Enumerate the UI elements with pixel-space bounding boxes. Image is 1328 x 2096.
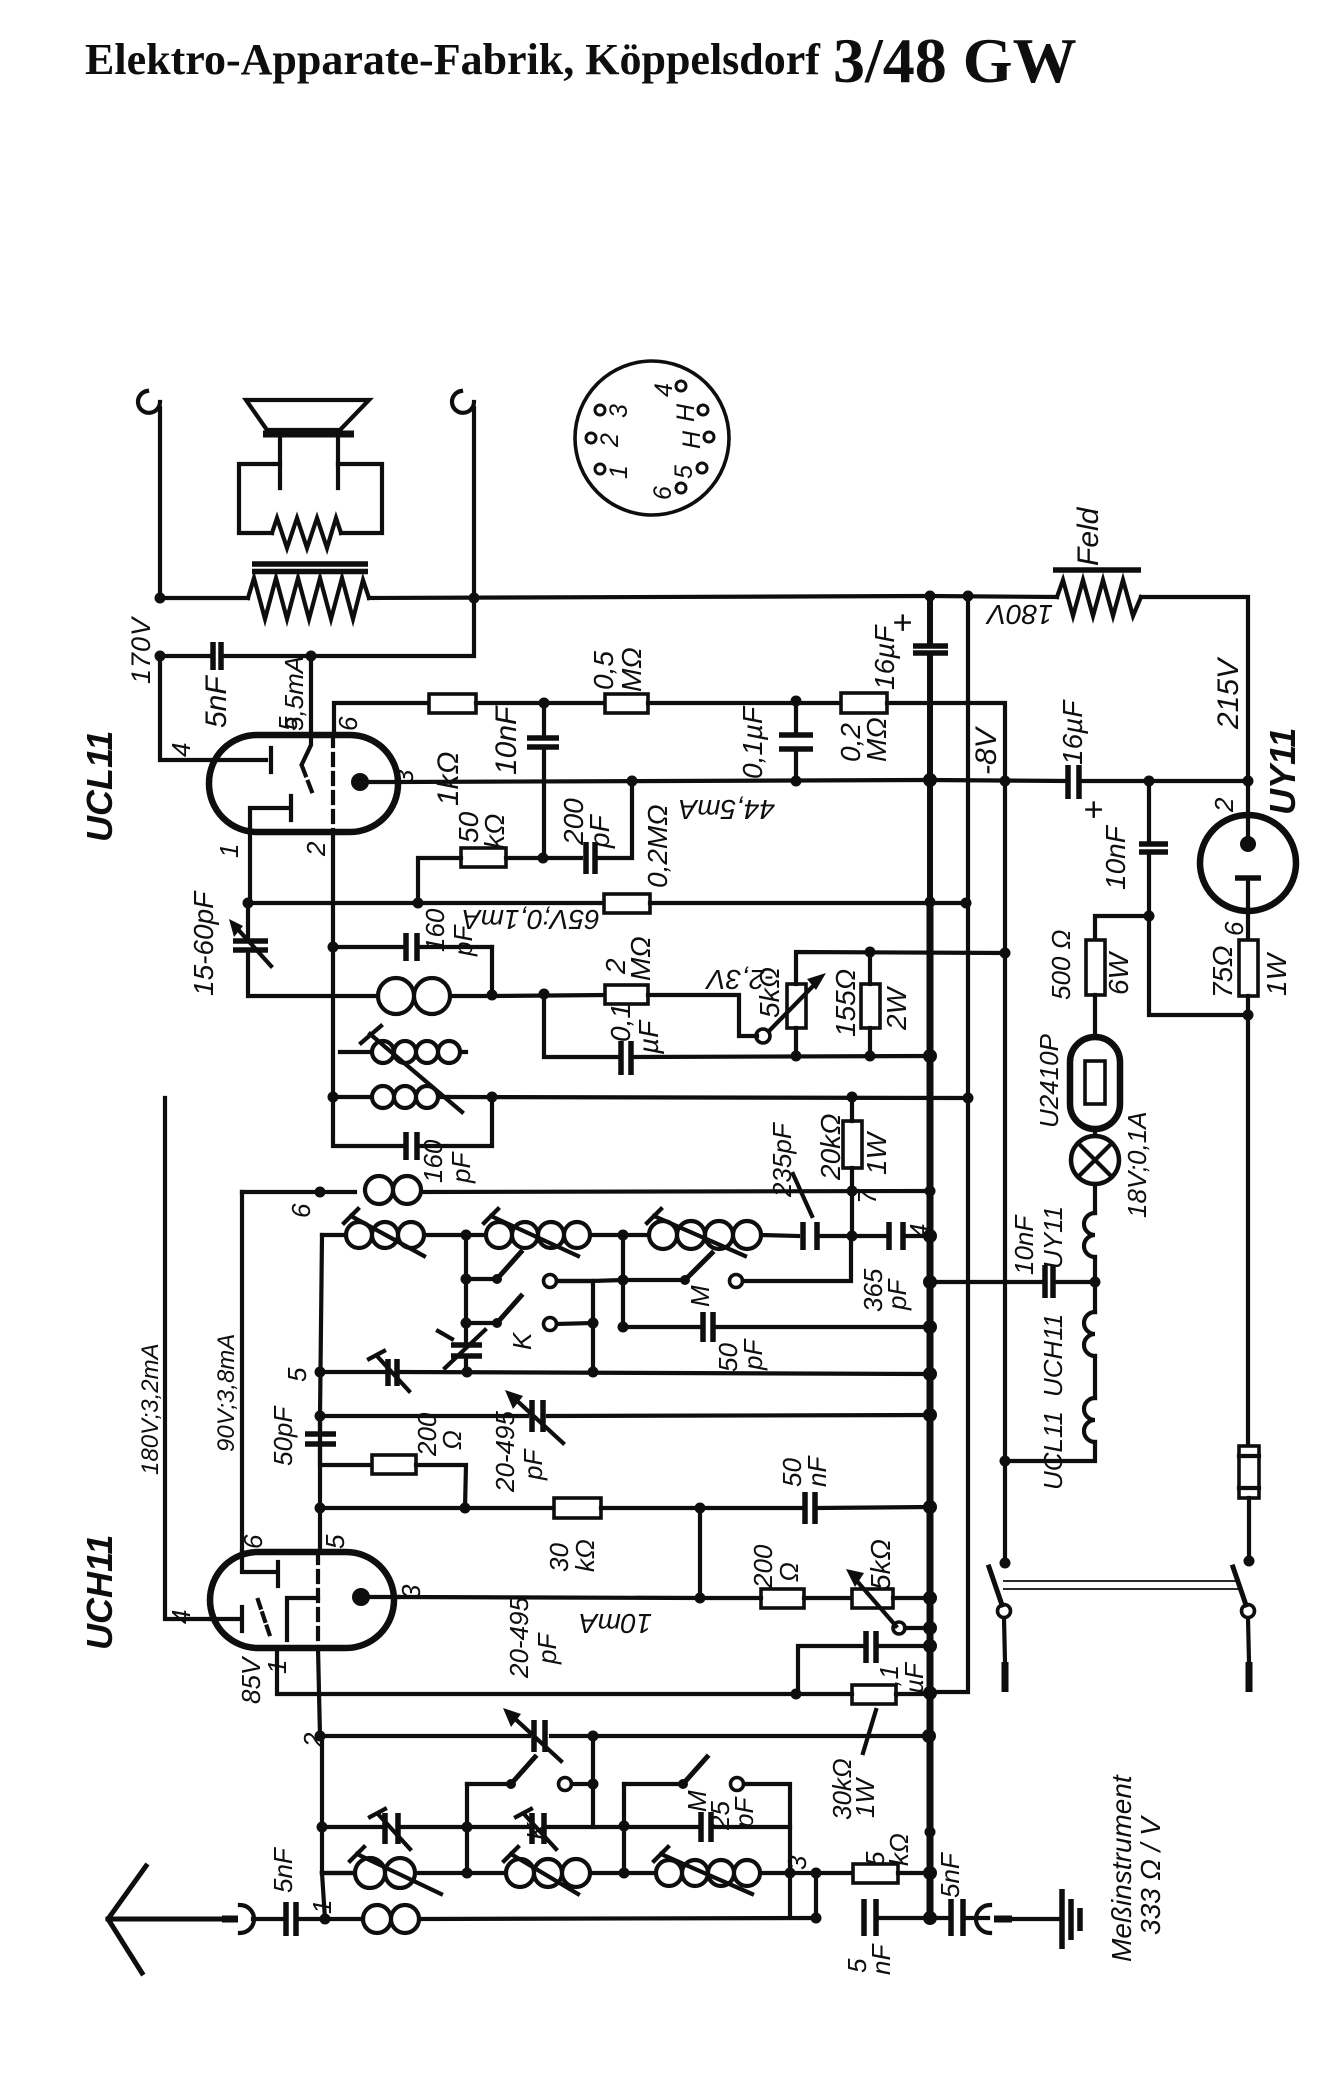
svg-text:1W: 1W — [850, 1777, 880, 1818]
wire heater node — [1093, 1257, 1097, 1312]
svg-text:10mA: 10mA — [579, 1608, 652, 1639]
ant coil A — [322, 1858, 467, 1888]
wire left vertical to pin 4 — [160, 656, 266, 760]
ant coil B diagonal — [511, 1854, 578, 1894]
capacitor 5nF IF trap — [864, 1899, 876, 1936]
svg-text:2: 2 — [301, 841, 331, 857]
fuse — [1239, 1446, 1259, 1498]
switch K ant contact — [559, 1778, 572, 1791]
UCH11 partition dashed — [316, 1552, 320, 1648]
wire 50k to 200pF — [506, 856, 581, 860]
svg-text:5kΩ: 5kΩ — [865, 1539, 896, 1590]
earth jack cup — [976, 1905, 990, 1933]
wire fuse to switch — [1247, 1498, 1251, 1561]
junction 10nF tap — [539, 698, 550, 709]
resistor 500 ohm — [1086, 940, 1105, 995]
osc tank top rail — [322, 1233, 346, 1237]
svg-text:18V;0,1A: 18V;0,1A — [1122, 1111, 1152, 1218]
junction 0,1uF AGC left — [791, 1689, 802, 1700]
svg-text:4: 4 — [166, 743, 196, 757]
junction -8V top — [1000, 776, 1011, 787]
junction osc bottom K leg — [588, 1367, 599, 1378]
antenna symbol — [108, 1866, 226, 1973]
mains switch right lead — [1248, 1618, 1249, 1662]
svg-text:5: 5 — [670, 465, 698, 479]
junction grid leak row left — [315, 1503, 326, 1514]
junction 0,1uF bottom — [791, 776, 802, 787]
svg-text:5nF: 5nF — [935, 1851, 965, 1898]
wire band osc row pin2 — [320, 1734, 930, 1738]
junction 200pF riser — [627, 776, 638, 787]
svg-text:pF: pF — [882, 1278, 912, 1311]
UCH11 screen lead inside — [242, 1552, 274, 1572]
wire band coil row — [322, 1871, 352, 1875]
potentiometer 5k IF body — [852, 1589, 893, 1608]
loudspeaker voice coil resistance zigzag — [272, 518, 341, 548]
wire grid leak row — [320, 1506, 554, 1510]
junction grid leak top — [460, 1503, 471, 1514]
wire K upper to leg — [557, 1281, 593, 1372]
wire M ant leg — [622, 1784, 626, 1873]
svg-text:UCL11: UCL11 — [1038, 1411, 1068, 1490]
loudspeaker voice-coil neck — [280, 436, 338, 488]
svg-text:H: H — [678, 430, 706, 449]
svg-text:2: 2 — [1209, 797, 1239, 813]
capacitor 50nF — [805, 1492, 815, 1524]
wire screen riser pin6 — [240, 1192, 244, 1552]
mains switch left pole pivot — [1000, 1558, 1011, 1569]
wire M row osc — [560, 1279, 593, 1283]
wire 50pF row — [623, 1325, 930, 1329]
svg-text:pF: pF — [518, 1448, 548, 1481]
rectifier UY11 envelope — [1200, 815, 1296, 911]
wire K ant contact to leg — [572, 1782, 593, 1786]
trimmer 15-60pF arrow — [234, 925, 271, 966]
wire K switch upper row — [464, 1235, 468, 1372]
svg-text:H: H — [672, 403, 700, 422]
switch K upper pivot — [466, 1277, 497, 1281]
heater UY11 humps — [1084, 1213, 1095, 1257]
svg-text:UCH11: UCH11 — [79, 1535, 120, 1650]
wire 30k to 50nF — [601, 1507, 930, 1508]
socket pin 2 hole — [586, 433, 596, 443]
junction 10nF branch — [1144, 776, 1155, 787]
wire plug to ground — [1012, 1917, 1060, 1921]
junction speaker left — [155, 593, 166, 604]
antenna plug pin — [222, 1916, 238, 1923]
socket pin 1 hole — [595, 464, 605, 474]
junction rail stray — [925, 1827, 936, 1838]
svg-text:1: 1 — [605, 465, 633, 479]
resistor 30k 1W — [852, 1685, 896, 1704]
junction 20k top — [847, 1092, 858, 1103]
svg-text:180V: 180V — [985, 599, 1053, 630]
junction 20k bottom row — [847, 1186, 858, 1197]
svg-text:215V: 215V — [1212, 656, 1245, 730]
svg-text:kΩ: kΩ — [479, 814, 510, 849]
potentiometer 5k arrow — [769, 981, 818, 1031]
socket pin 6 hole — [676, 483, 686, 493]
svg-text:MΩ: MΩ — [861, 717, 892, 762]
wire band trimmer row — [322, 1825, 790, 1829]
junction IF2 left — [328, 1092, 339, 1103]
junction K leg mid — [588, 1318, 599, 1329]
junction heater 10nF — [1090, 1277, 1101, 1288]
junction rail heater return — [923, 1686, 937, 1700]
osc M coil — [623, 1221, 798, 1249]
mains switch left lead — [1004, 1618, 1005, 1662]
heater UCH11 humps — [1084, 1312, 1095, 1356]
wire padder row — [320, 1415, 930, 1416]
svg-text:6: 6 — [333, 716, 363, 731]
wire 365pF to rail — [903, 1234, 930, 1238]
svg-text:0,1: 0,1 — [605, 1003, 636, 1042]
switch K lower pivot — [466, 1321, 497, 1325]
wire heater return — [1005, 1442, 1095, 1461]
junction rail 0,1uF — [923, 1639, 937, 1653]
junction rail tank — [923, 1229, 937, 1243]
svg-text:pF: pF — [584, 813, 615, 849]
junction coil row M leg — [619, 1868, 630, 1879]
IF winding B core arrow — [361, 1026, 462, 1112]
junction trimmer row mid — [462, 1822, 473, 1833]
svg-text:85V: 85V — [236, 1655, 266, 1704]
junction pin1 top — [243, 898, 254, 909]
junction rail osc bottom — [923, 1367, 937, 1381]
wire pin 2 down — [331, 832, 335, 946]
output transformer primary winding zigzag — [248, 578, 369, 619]
osc coil A — [346, 1222, 466, 1248]
svg-text:20kΩ: 20kΩ — [815, 1114, 846, 1181]
wire lamp to heater UY11 — [1093, 1184, 1097, 1213]
svg-text:-8V: -8V — [970, 725, 1003, 775]
HT rail lower thick — [927, 905, 934, 1918]
junction heater rail grid row — [961, 898, 972, 909]
svg-text:3: 3 — [605, 404, 633, 418]
svg-text:20-495: 20-495 — [490, 1411, 520, 1493]
trimmer K ant core arrow — [516, 1809, 556, 1849]
trimmer 15-60pF — [233, 941, 268, 950]
resistor 155 — [861, 984, 880, 1028]
svg-text:+: + — [884, 613, 922, 633]
mains plug pin left — [1002, 1662, 1009, 1692]
output transformer core bars — [252, 564, 368, 572]
wire osc bottom rail — [320, 1372, 930, 1374]
switch M osc lever — [685, 1253, 712, 1280]
switch K lower lever — [497, 1296, 521, 1323]
wire pot bottom — [794, 1028, 798, 1056]
switch K ant lever — [511, 1757, 535, 1784]
wire winding A to 2M — [492, 995, 605, 996]
junction heater return — [1000, 1456, 1011, 1467]
svg-text:nF: nF — [866, 1943, 896, 1975]
wire 5nF tap leg — [814, 1873, 818, 1918]
svg-text:10nF: 10nF — [1009, 1214, 1039, 1275]
wire 0,1uF leads — [794, 703, 798, 781]
capacitor 160pF lower — [406, 1132, 417, 1160]
osc M coil diagonal — [654, 1216, 745, 1256]
switch K ant pivot wire — [467, 1782, 511, 1786]
resistor 0,5M — [605, 694, 648, 713]
svg-text:UY11: UY11 — [1038, 1206, 1068, 1269]
svg-text:1W: 1W — [861, 1130, 892, 1175]
svg-text:3: 3 — [782, 1855, 812, 1870]
junction 0,1uF top — [791, 696, 802, 707]
junction IF1 right mid — [487, 990, 498, 1001]
junction rail 10nF heater — [923, 1275, 937, 1289]
wire 155 top — [868, 952, 872, 984]
wire 500 ohm branch — [1095, 916, 1149, 940]
junction coil row mid — [462, 1868, 473, 1879]
junction anode feed — [306, 651, 317, 662]
ant coil B core mark — [504, 1847, 518, 1861]
junction rail 5k trap — [923, 1866, 937, 1880]
capacitor 10nF rectifier — [1139, 844, 1168, 852]
resistor 50k — [461, 848, 506, 867]
junction grid wire — [413, 898, 424, 909]
svg-text:6: 6 — [238, 1534, 268, 1549]
resistor 20k — [843, 1121, 862, 1168]
svg-text:1kΩ: 1kΩ — [432, 751, 465, 806]
IF1 left leg — [331, 947, 335, 1097]
osc coil A diagonal — [351, 1216, 424, 1256]
junction 5k wave trap left — [811, 1868, 822, 1879]
ant coil C diagonal — [661, 1854, 752, 1894]
svg-text:10nF: 10nF — [490, 705, 523, 775]
wire coil row to antenna wire — [322, 1873, 325, 1919]
svg-text:16µF: 16µF — [1057, 699, 1088, 765]
svg-text:75Ω: 75Ω — [1207, 946, 1238, 998]
wire 170V row — [160, 598, 474, 656]
junction 200pF left — [538, 853, 549, 864]
capacitor 0,1uF AGC — [866, 1631, 876, 1663]
wire left HT riser pin4 — [165, 1098, 210, 1619]
svg-text:pF: pF — [729, 1796, 759, 1829]
wire speaker row left — [160, 596, 248, 600]
svg-text:90V;3,8mA: 90V;3,8mA — [213, 1334, 240, 1452]
svg-text:7: 7 — [852, 1188, 882, 1204]
antenna coupling coil — [363, 1905, 816, 1933]
wire 200ohm osc row — [320, 1416, 372, 1465]
junction rail grid row — [925, 897, 936, 908]
junction rail wiper — [923, 1621, 937, 1635]
capacitor 235pF — [803, 1222, 817, 1250]
capacitor 50pF osc — [703, 1312, 713, 1342]
svg-text:50pF: 50pF — [268, 1405, 298, 1466]
wire 200pF right riser — [595, 781, 632, 858]
UCL11 partition dashed pin2 — [331, 735, 335, 832]
switch M ant pivot — [678, 1779, 688, 1789]
variable capacitor ant arrow — [512, 1716, 561, 1761]
earth plug pin — [994, 1916, 1012, 1923]
junction speaker right — [469, 593, 480, 604]
svg-text:15-60pF: 15-60pF — [188, 890, 219, 996]
svg-text:pF: pF — [448, 924, 478, 957]
switch M ant contact — [731, 1778, 744, 1791]
svg-text:5: 5 — [273, 716, 303, 731]
wire grid row right — [650, 901, 968, 905]
svg-text:0,1µF: 0,1µF — [737, 705, 768, 779]
junction HT 0,2M row — [923, 773, 937, 787]
wire 75ohm down — [1246, 996, 1250, 1446]
svg-text:Feld: Feld — [1072, 506, 1105, 566]
UCL11 grid electrode pentode — [269, 748, 273, 772]
junction pin2 row — [315, 1731, 326, 1742]
wire 10nF branch down — [1149, 781, 1248, 1015]
capacitor 5nF top — [213, 642, 221, 670]
junction K upper left — [461, 1274, 472, 1285]
wire cathode row — [544, 994, 931, 1057]
wire IF row to right — [448, 1097, 968, 1098]
potentiometer 5k IF wiper contact — [893, 1622, 905, 1634]
trimmer K ant — [532, 1813, 544, 1844]
wire 155 bottom — [868, 1028, 872, 1056]
svg-text:µF: µF — [633, 1019, 664, 1055]
wire anode 10mA row — [398, 1597, 700, 1598]
svg-text:UCH11: UCH11 — [1038, 1314, 1068, 1397]
svg-text:65V;0,1mA: 65V;0,1mA — [462, 904, 600, 935]
osc coil B diagonal — [491, 1216, 578, 1256]
UY11 anode lead and dot — [1246, 781, 1250, 844]
osc coil B — [466, 1222, 623, 1248]
UCL11 pin3 lead — [360, 780, 398, 784]
junction antenna coil — [320, 1914, 331, 1925]
potentiometer 5k wiper circle — [756, 1029, 770, 1043]
capacitor 50pF grid — [305, 1434, 336, 1444]
svg-text:6: 6 — [649, 486, 677, 500]
UY11 cathode lead — [1246, 878, 1250, 940]
capacitor 25pF — [701, 1812, 711, 1842]
trimmer K tank — [451, 1345, 482, 1356]
UCL11 triode grid electrode — [250, 796, 291, 832]
wire M contact to 235pF — [743, 1236, 851, 1281]
svg-text:+: + — [1075, 800, 1113, 820]
junction heater feed — [1243, 1010, 1254, 1021]
svg-text:Meßinstrument: Meßinstrument — [1106, 1774, 1137, 1962]
junction 155 bottom — [865, 1051, 876, 1062]
output terminal hook left — [138, 391, 160, 598]
svg-text:0,5: 0,5 — [588, 651, 619, 690]
resistor 1k — [429, 694, 476, 713]
wire top row to Feld — [930, 596, 1057, 597]
wire 500 to U2410P — [1093, 995, 1097, 1037]
tube UCH11 envelope — [210, 1552, 394, 1648]
wire 5k to rail — [898, 1871, 930, 1875]
svg-text:160: 160 — [418, 1139, 448, 1183]
wire 16uF2 to UY11 — [1079, 779, 1248, 783]
UCH11 pin4 lead — [210, 1617, 238, 1621]
potentiometer 5k body — [787, 984, 806, 1028]
wire K ant leg — [591, 1736, 595, 1827]
wire pin 1 down — [250, 832, 418, 903]
svg-text:1: 1 — [214, 844, 244, 858]
wire 0,1uF AGC stub — [798, 1646, 930, 1694]
ant coil B — [467, 1859, 624, 1887]
svg-text:6: 6 — [1219, 921, 1249, 936]
svg-text:5: 5 — [282, 1367, 312, 1382]
svg-text:4: 4 — [166, 1610, 196, 1624]
junction K ant leg top — [588, 1731, 599, 1742]
socket pin H upper hole — [698, 405, 708, 415]
loudspeaker cone rim bar — [263, 431, 354, 438]
IF coil winding C — [333, 1086, 448, 1108]
wire 235pF to 365pF — [817, 1234, 885, 1238]
IF coil winding A — [378, 978, 492, 1014]
junction rail osc grid — [925, 1186, 936, 1197]
junction M row left — [618, 1275, 629, 1286]
wire ant pin2 leg — [320, 1736, 324, 1873]
svg-text:20-495: 20-495 — [504, 1597, 534, 1679]
junction anode row 50nF leg — [695, 1593, 706, 1604]
wire coil row to 5k — [790, 1871, 853, 1875]
UCL11 triode anode dot pin3 — [351, 773, 369, 791]
wire earth jack — [930, 1916, 988, 1920]
svg-text:UY11: UY11 — [1262, 728, 1303, 815]
UY11 cathode bar — [1235, 875, 1261, 881]
tube UCL11 envelope — [209, 735, 398, 832]
wire M row — [593, 1280, 685, 1281]
junction pin6 row — [315, 1187, 326, 1198]
switch K lower contact — [544, 1318, 557, 1331]
switch K upper lever — [497, 1252, 521, 1279]
svg-text:pF: pF — [446, 1151, 476, 1184]
svg-text:pF: pF — [738, 1338, 768, 1371]
antenna jack cup — [240, 1905, 254, 1933]
trimmer ant input core arrow — [370, 1809, 410, 1849]
field coil Feld core bar — [1053, 567, 1141, 573]
svg-text:K: K — [507, 1331, 537, 1350]
wire antenna row — [253, 1917, 363, 1921]
svg-text:155Ω: 155Ω — [830, 969, 861, 1037]
switch M osc contact — [730, 1275, 743, 1288]
wire 0,5M to 0,2M — [648, 701, 841, 705]
switch M osc pivot — [680, 1275, 690, 1285]
ant coil C core mark — [654, 1847, 668, 1861]
svg-text:UCL11: UCL11 — [79, 731, 120, 842]
socket pin H lower hole — [704, 432, 714, 442]
svg-text:500 Ω: 500 Ω — [1046, 930, 1076, 1000]
trimmer osc bottom — [388, 1359, 397, 1386]
junction K lower left — [461, 1318, 472, 1329]
wire 15-60pF leads — [248, 903, 378, 996]
wire grid row — [418, 901, 604, 905]
wire 5k pot to rail — [893, 1596, 930, 1600]
resistor 5k wave trap — [853, 1864, 898, 1883]
osc coil B core mark — [484, 1209, 498, 1223]
loudspeaker cone — [246, 400, 369, 430]
socket pin 4 hole — [676, 381, 686, 391]
wire pot top — [796, 952, 1005, 984]
junction M leg bottom — [785, 1868, 796, 1879]
svg-text:0,2MΩ: 0,2MΩ — [642, 804, 673, 888]
variable capacitor 20-495pF ant — [534, 1720, 545, 1752]
svg-text:170V: 170V — [126, 615, 156, 684]
capacitor 10nF heater — [1045, 1265, 1053, 1298]
wire 50k left to grid — [418, 858, 461, 903]
wire 200 to 5k pot — [700, 1596, 852, 1600]
svg-text:10nF: 10nF — [1100, 824, 1131, 890]
svg-text:Ω: Ω — [774, 1562, 804, 1582]
wire 2M right to wiper — [648, 995, 757, 1036]
field coil Feld zigzag — [1057, 580, 1141, 616]
output terminal hook right — [452, 391, 474, 598]
IF2 left leg lower — [333, 1097, 405, 1146]
trimmer osc bottom core arrow — [369, 1351, 409, 1391]
resistor 2M — [605, 985, 648, 1004]
svg-text:kΩ: kΩ — [570, 1539, 600, 1572]
junction tank rail mid — [461, 1230, 472, 1241]
capacitor 16uF electrolytic top — [913, 646, 948, 653]
